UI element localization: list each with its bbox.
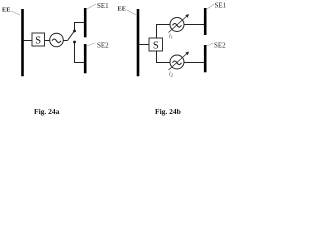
wire source i2 to SE2 (fig 24b)	[184, 62, 204, 64]
leader line SE1 (fig 24b)	[207, 4, 214, 9]
switch upper contact dot (fig 24a)	[73, 30, 76, 33]
wire S box bottom to AC source i2 (fig 24b)	[157, 51, 171, 63]
svg-text:SE2: SE2	[97, 42, 109, 50]
variable arrow of source i1 (fig 24b)	[169, 14, 190, 33]
AC source i2 (fig 24b)	[170, 55, 184, 69]
wire upper contact to SE1 (fig 24a)	[75, 23, 85, 32]
control box S (fig 24b)	[149, 38, 163, 52]
svg-text:i2: i2	[169, 72, 174, 78]
leader line EE (fig 24a)	[11, 11, 20, 15]
wire AC source to switch pivot (fig 24a)	[63, 40, 67, 42]
wire S box top to AC source i1 (fig 24b)	[157, 25, 171, 39]
AC source (fig 24a)	[50, 33, 64, 47]
variable arrow of source i2 (fig 24b)	[169, 52, 190, 71]
AC source i1 (fig 24b)	[170, 18, 184, 32]
wire EE bar to S box (fig 24a)	[24, 40, 33, 42]
electrode SE2 bar (fig 24b)	[204, 45, 207, 72]
switch arm (fig 24a)	[68, 32, 75, 41]
wire EE bar to S box (fig 24b)	[139, 44, 149, 46]
svg-text:SE2: SE2	[214, 42, 226, 50]
svg-text:S: S	[153, 41, 159, 52]
leader line EE (fig 24b)	[127, 10, 136, 15]
svg-text:Fig. 24b: Fig. 24b	[155, 107, 181, 116]
svg-text:i1: i1	[169, 34, 173, 40]
svg-text:Fig. 24a: Fig. 24a	[34, 107, 60, 116]
wire lower contact to SE2 (fig 24a)	[75, 42, 85, 63]
leader line SE2 (fig 24a)	[87, 43, 95, 46]
leader line SE2 (fig 24b)	[207, 43, 213, 46]
wire source i1 to SE1 (fig 24b)	[184, 24, 204, 26]
electrode SE1 bar (fig 24b)	[204, 8, 207, 35]
electrode EE bar (fig 24a)	[21, 9, 24, 76]
svg-text:EE: EE	[2, 7, 10, 14]
electrode SE1 bar (fig 24a)	[84, 8, 87, 37]
leader line SE1 (fig 24a)	[87, 4, 96, 9]
electrode SE2 bar (fig 24a)	[84, 44, 87, 73]
svg-text:EE: EE	[118, 6, 126, 13]
control box S (fig 24a)	[32, 33, 45, 47]
svg-text:SE1: SE1	[97, 2, 109, 10]
switch lower contact dot (fig 24a)	[73, 41, 76, 44]
wire S box to AC source (fig 24a)	[45, 40, 50, 42]
svg-text:S: S	[35, 36, 41, 47]
electrode EE bar (fig 24b)	[137, 9, 140, 76]
svg-text:SE1: SE1	[215, 2, 227, 10]
